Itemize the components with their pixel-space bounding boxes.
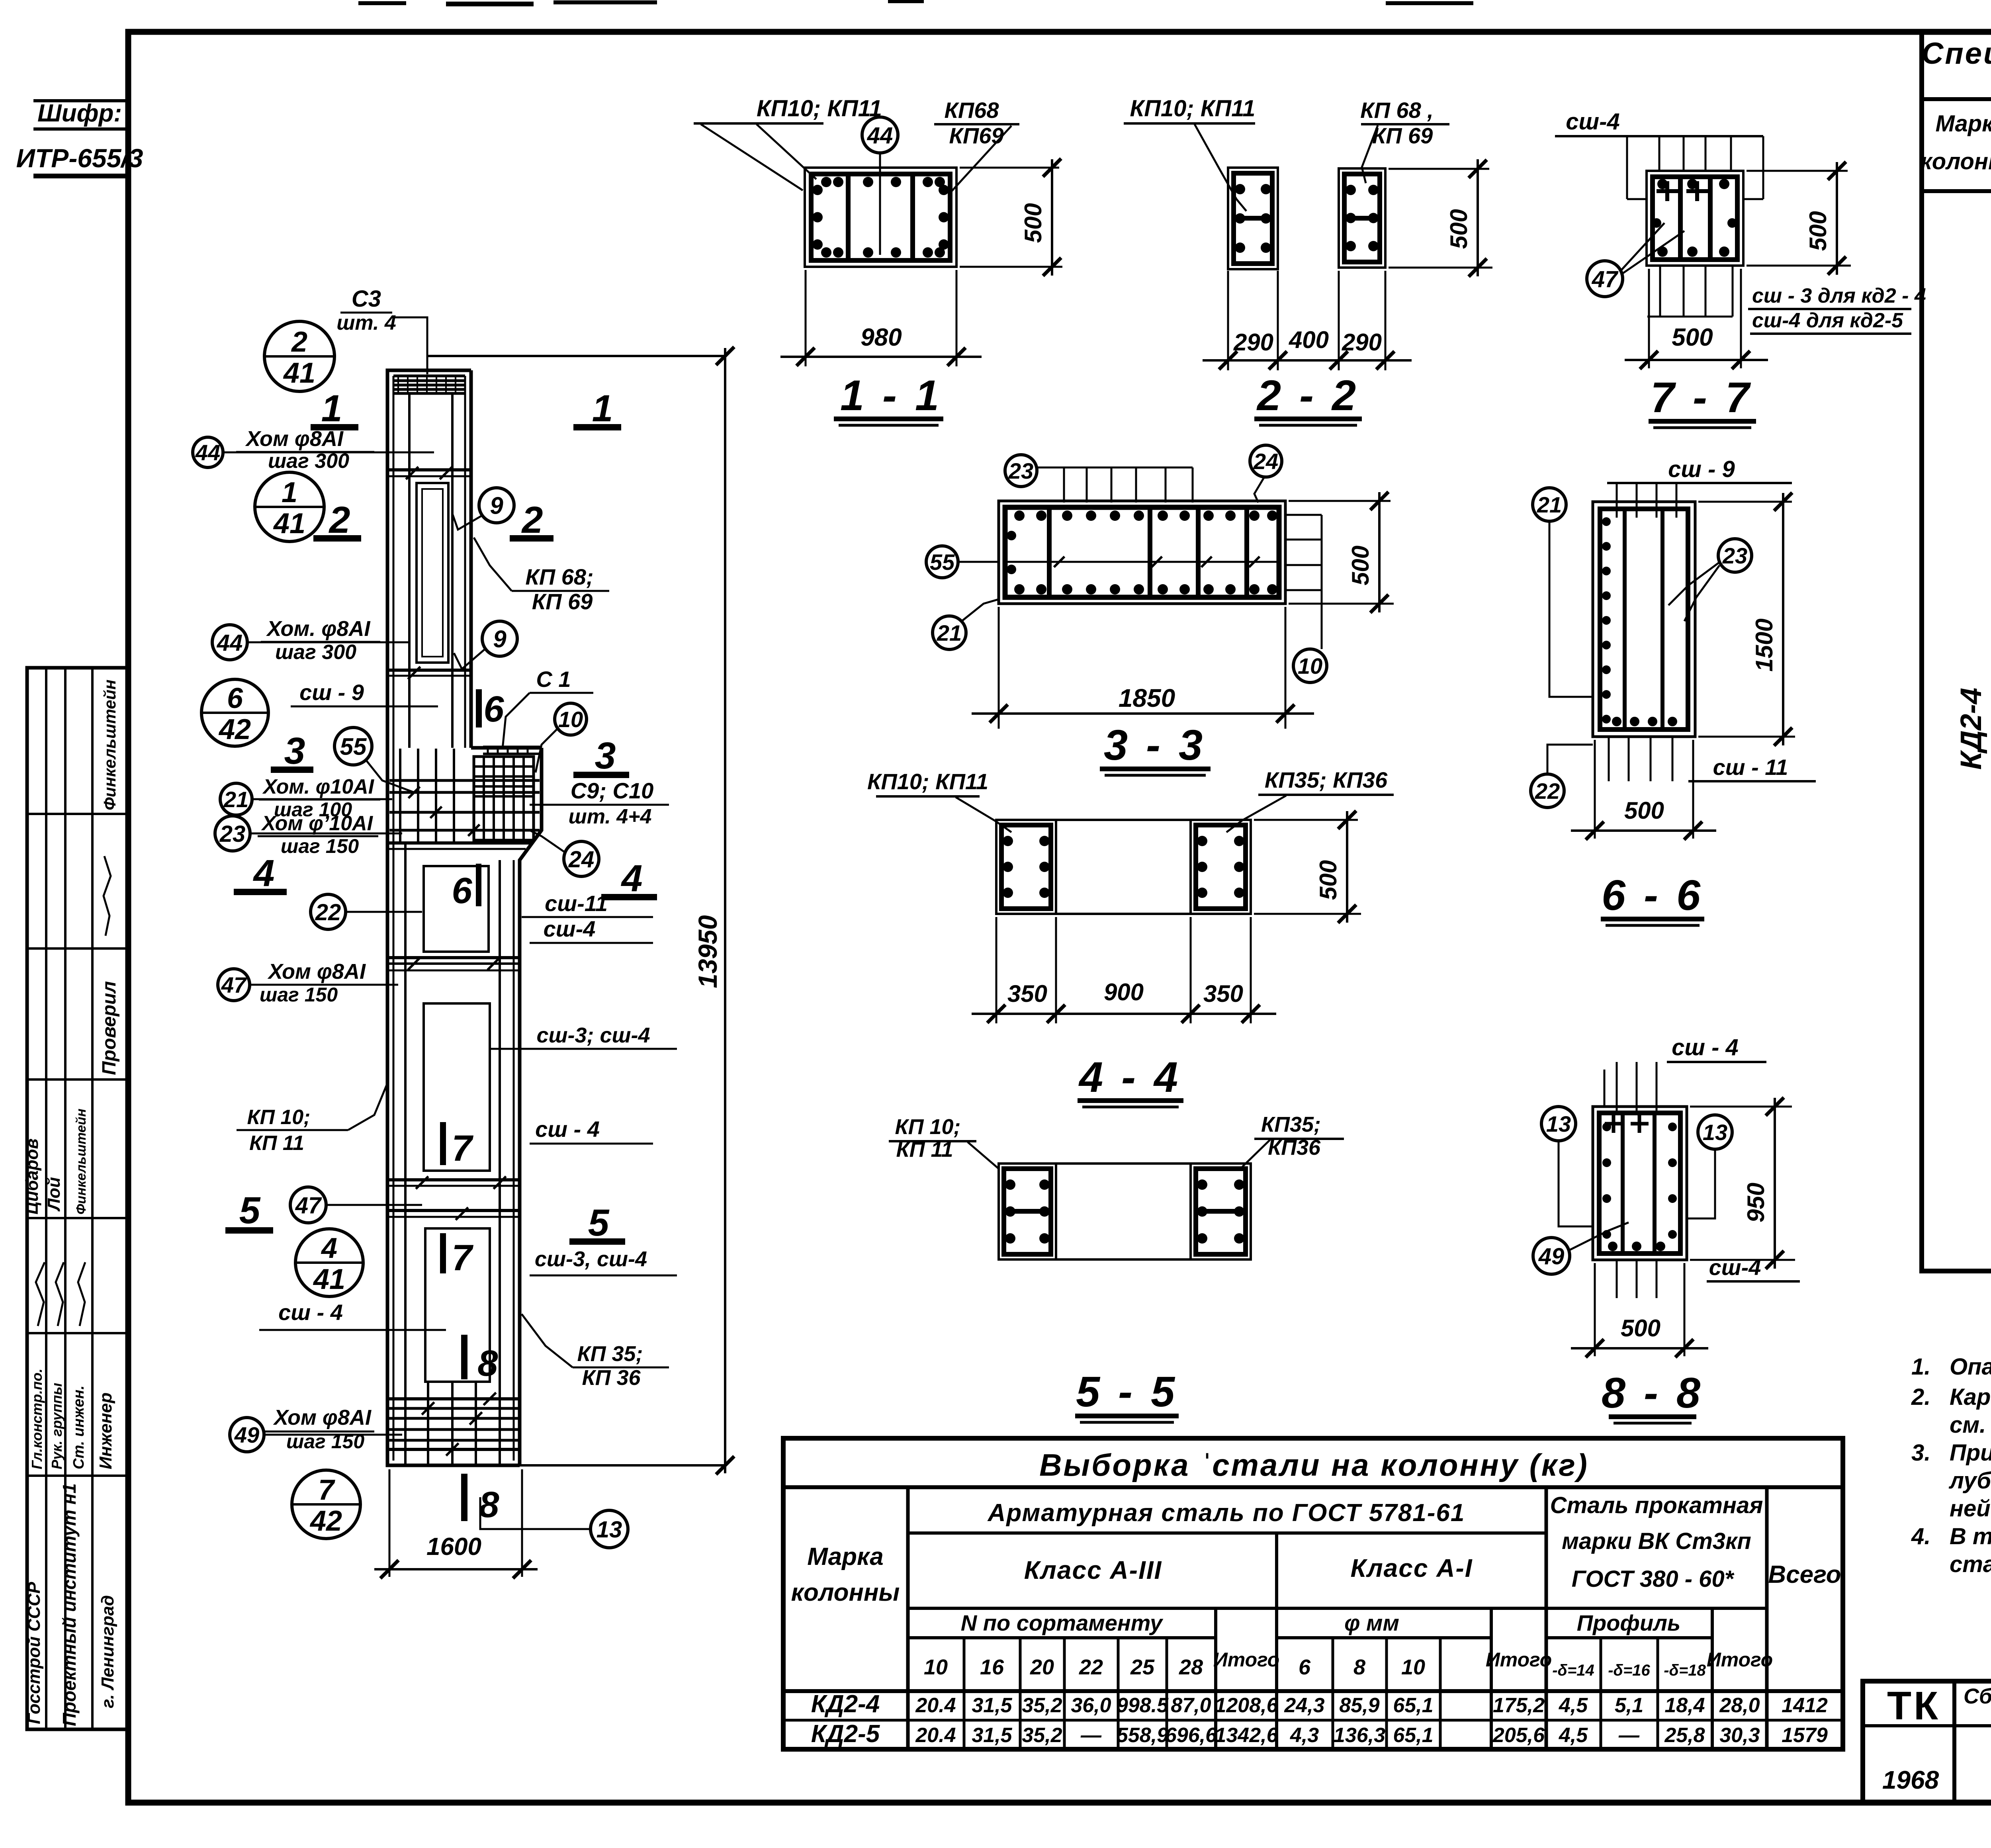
svg-text:сш-4: сш-4 (544, 916, 596, 941)
svg-text:400: 400 (1289, 327, 1329, 353)
svg-text:В таблице расхода материа: В таблице расхода материалов не учтен ра… (1950, 1523, 1991, 1549)
svg-text:1208,6: 1208,6 (1215, 1694, 1278, 1717)
svg-text:лубку колонн маркированные к: лубку колонн маркированные краской концы… (1948, 1468, 1991, 1494)
leader 9 upper (452, 514, 482, 530)
svg-text:ИТР-655/3: ИТР-655/3 (16, 143, 143, 173)
section 8-8 callout 13 right (1698, 1115, 1732, 1149)
section 7-7 leader 47 (1621, 223, 1664, 271)
svg-text:КП 10;: КП 10; (247, 1106, 311, 1129)
svg-text:Сборные железобетонные двухвет: Сборные железобетонные двухветвевые коло… (1964, 1684, 1991, 1708)
section 8-8 bracket 13 right (1687, 1150, 1715, 1218)
svg-text:При установке пространственн: При установке пространственных каркасов … (1950, 1440, 1991, 1466)
leader 9 lower (454, 649, 485, 669)
svg-text:Итого: Итого (1486, 1649, 1552, 1671)
leader 47 lower (326, 1204, 422, 1206)
svg-text:—: — (1080, 1724, 1102, 1747)
svg-text:КД2-4: КД2-4 (1954, 688, 1987, 770)
section 3-3 callout 55 (926, 546, 958, 578)
section 4-4 dim 500 extensions (1254, 819, 1358, 821)
svg-text:25: 25 (1130, 1655, 1155, 1679)
svg-text:С 1: С 1 (536, 667, 571, 692)
section 2-2 leader KP68 (1362, 125, 1378, 183)
svg-text:Ст. инжен.: Ст. инжен. (70, 1385, 87, 1469)
column elevation outline (387, 370, 520, 1465)
section 8-8 bottom bracket (1616, 1260, 1618, 1298)
section 3-3 body outer (999, 501, 1285, 604)
section 8-8 dim 500 extensions (1594, 1263, 1596, 1356)
svg-text:980: 980 (861, 324, 902, 351)
svg-text:сш - 4: сш - 4 (535, 1117, 600, 1142)
svg-text:205,6: 205,6 (1492, 1724, 1545, 1747)
leader 13 (480, 1497, 591, 1529)
svg-text:-δ=14: -δ=14 (1552, 1662, 1594, 1679)
leader KP68 (474, 538, 512, 591)
svg-text:6: 6 (452, 870, 472, 911)
svg-text:42: 42 (218, 714, 251, 745)
section 3-3 callout 21 (933, 616, 966, 649)
svg-text:сш-11: сш-11 (545, 891, 608, 916)
svg-text:8: 8 (1353, 1655, 1365, 1679)
leader 44 lower (247, 641, 409, 643)
corbel stirrup cage (474, 757, 534, 840)
cipher box top-left (33, 99, 128, 102)
section 4-4 leader KP35 (1226, 796, 1286, 832)
title block outer (1863, 1681, 1991, 1803)
steel table horizontal lines (908, 1531, 1546, 1535)
svg-text:КП 10;: КП 10; (895, 1115, 960, 1139)
sidebar table grid (27, 668, 127, 1729)
svg-text:3 - 3: 3 - 3 (1104, 721, 1206, 769)
svg-text:КП36: КП36 (1268, 1136, 1321, 1160)
svg-text:Рук. группы: Рук. группы (49, 1383, 65, 1469)
svg-text:136,3: 136,3 (1334, 1724, 1385, 1747)
svg-text:колонны: колонны (1920, 149, 1991, 174)
svg-text:Госстрой СССР: Госстрой СССР (24, 1582, 44, 1724)
svg-text:49: 49 (1538, 1244, 1565, 1269)
svg-text:КП68: КП68 (945, 98, 999, 123)
svg-text:КП10; КП11: КП10; КП11 (1130, 96, 1256, 121)
svg-text:47: 47 (1592, 266, 1619, 292)
leader S1 (503, 693, 530, 749)
svg-text:23: 23 (219, 821, 246, 847)
svg-text:7: 7 (452, 1128, 473, 1169)
section 8-8 top bracket (1616, 1062, 1618, 1111)
section 2-2 right branch (1339, 168, 1385, 268)
svg-text:1968: 1968 (1882, 1766, 1939, 1794)
svg-text:КП10; КП11: КП10; КП11 (757, 96, 882, 121)
svg-text:8: 8 (479, 1484, 499, 1525)
section 7-7 callout 47 (1587, 261, 1623, 297)
svg-text:21: 21 (1537, 492, 1562, 517)
svg-text:6: 6 (483, 689, 504, 729)
svg-text:500: 500 (1672, 324, 1713, 351)
svg-text:6: 6 (227, 682, 243, 714)
svg-text:13950: 13950 (693, 915, 722, 988)
svg-text:500: 500 (1445, 209, 1472, 249)
leader SSh-3 SSh-4 (490, 1048, 530, 1050)
svg-text:998.5: 998.5 (1117, 1694, 1169, 1717)
section 6-6 dim 1500 line (1782, 493, 1784, 745)
callout circle 6/42 (201, 679, 268, 746)
svg-text:Финкельштейн: Финкельштейн (74, 1109, 89, 1214)
svg-text:2: 2 (291, 326, 307, 358)
callout circle 55 (334, 727, 372, 765)
svg-text:шаг 300: шаг 300 (275, 641, 356, 664)
svg-text:Опалубку колонн см. в вы: Опалубку колонн см. в выпуске I л 35 (1950, 1354, 1991, 1380)
svg-text:1850: 1850 (1119, 684, 1175, 712)
svg-text:41: 41 (283, 357, 315, 389)
svg-text:23: 23 (1722, 543, 1747, 568)
svg-text:ТК: ТК (1887, 1684, 1940, 1728)
svg-text:сш-4 для кд2-5: сш-4 для кд2-5 (1752, 309, 1903, 332)
svg-text:350: 350 (1007, 980, 1047, 1007)
section 1-1 dim 980 line (780, 356, 982, 358)
section 6-6 callout 23 (1718, 539, 1752, 572)
svg-text:3: 3 (284, 730, 305, 772)
svg-text:Проектный институт н1: Проектный институт н1 (59, 1483, 80, 1726)
section 6-6 rebar verticals (1623, 509, 1627, 729)
callout circle 44 upper (193, 437, 223, 467)
section 7-7 body (1647, 171, 1743, 266)
svg-text:Проверил: Проверил (99, 981, 120, 1075)
section bar 7 upper (441, 1123, 445, 1164)
svg-text:-δ=18: -δ=18 (1664, 1662, 1706, 1679)
section 2-2 leader KP10 (1195, 124, 1246, 211)
svg-text:Итого: Итого (1213, 1649, 1279, 1671)
svg-text:1579: 1579 (1782, 1724, 1828, 1747)
svg-text:9: 9 (490, 493, 503, 519)
section 1-1 leader KP10 (701, 124, 803, 190)
svg-text:марки ВК Ст3кп: марки ВК Ст3кп (1562, 1528, 1751, 1554)
sidebar signature squiggle 1 (104, 856, 111, 936)
section 7-7 top bracket (1626, 136, 1628, 199)
section 1-1 dim 500 line (1051, 159, 1053, 276)
section 3-3 hook ticks (1054, 557, 1064, 567)
svg-text:44: 44 (867, 123, 893, 149)
leader S3 (392, 317, 427, 374)
callout circle 9 upper (479, 488, 514, 523)
section 3-3 dim 1850 extensions (998, 607, 1000, 729)
svg-text:5,1: 5,1 (1615, 1694, 1643, 1717)
svg-text:4: 4 (321, 1232, 337, 1264)
svg-text:10: 10 (1298, 653, 1322, 679)
section 1-1 dim 980 extensions (805, 270, 807, 366)
callout circle 49 (230, 1418, 264, 1452)
svg-text:1342,6: 1342,6 (1215, 1724, 1278, 1747)
section 4-4 leader KP10 (956, 797, 1011, 832)
callout circle 21 (220, 783, 252, 815)
callout circle 24 column (564, 841, 599, 876)
svg-text:7: 7 (452, 1238, 473, 1278)
column top rebar verticals (408, 394, 411, 748)
section 3-3 rebar dots left (1007, 531, 1016, 540)
svg-text:20: 20 (1030, 1655, 1054, 1679)
joint band y1180 (387, 468, 471, 471)
section 6-6 bottom dots (1612, 717, 1621, 726)
svg-text:2: 2 (329, 499, 350, 541)
svg-text:47: 47 (295, 1193, 322, 1218)
callout circle 23 (215, 816, 250, 851)
scan artifact dashes top edge (358, 1, 406, 5)
section 6-6 body inner cage (1600, 509, 1688, 729)
svg-text:24: 24 (568, 847, 595, 872)
section 6-6 callout 22 (1531, 774, 1564, 808)
leader 24 column (530, 830, 565, 852)
svg-text:КП35; КП36: КП35; КП36 (1265, 767, 1388, 792)
svg-text:Итого: Итого (1707, 1649, 1773, 1671)
callout circle 2/41 (264, 321, 334, 391)
svg-text:сш - 9: сш - 9 (1668, 456, 1735, 482)
section bar 6 upper (477, 690, 481, 727)
section 6-6 callout 21 (1533, 488, 1566, 521)
section 3-3 mid stirrup line (1005, 561, 1279, 563)
svg-text:500: 500 (1347, 546, 1374, 585)
window opening 2 (424, 866, 489, 952)
section 3-3 callout 10 (1293, 649, 1327, 682)
svg-text:36,0: 36,0 (1071, 1694, 1111, 1717)
svg-text:696,6: 696,6 (1165, 1724, 1217, 1747)
svg-text:65,1: 65,1 (1393, 1694, 1433, 1717)
section 3-3 compartment dividers (1047, 510, 1052, 595)
svg-text:сш - 9: сш - 9 (299, 680, 364, 705)
section 8-8 callout 13 left (1541, 1107, 1576, 1141)
callout circle 4/41 (295, 1229, 363, 1297)
svg-text:колонны: колонны (791, 1579, 900, 1606)
leader KP35 (522, 1314, 573, 1367)
svg-text:1.: 1. (1911, 1354, 1930, 1380)
svg-text:25,8: 25,8 (1664, 1724, 1705, 1747)
column inner formwork lines (393, 376, 395, 1461)
section 1-1 body (805, 168, 956, 267)
window opening 1 (KP frame) (417, 483, 448, 663)
section 3-3 callout 24 (1250, 445, 1282, 477)
svg-text:сш - 11: сш - 11 (1713, 755, 1788, 780)
svg-text:Спецификация арматурных изде: Спецификация арматурных изделий (1921, 37, 1991, 70)
svg-text:1 - 1: 1 - 1 (840, 371, 942, 419)
svg-text:сш-3, сш-4: сш-3, сш-4 (535, 1247, 647, 1271)
svg-text:41: 41 (273, 508, 305, 540)
svg-text:3.: 3. (1911, 1440, 1930, 1466)
callout circle 9 lower (482, 621, 517, 656)
svg-text:5: 5 (239, 1189, 261, 1232)
section 5-5 leader KP10 (968, 1142, 999, 1169)
svg-text:г. Ленинград: г. Ленинград (98, 1595, 117, 1708)
svg-text:87,0: 87,0 (1171, 1694, 1211, 1717)
leader 22 (346, 911, 422, 913)
section 1-1 leader KP68 (952, 126, 1011, 191)
svg-text:20.4: 20.4 (915, 1724, 956, 1747)
svg-text:35,2: 35,2 (1022, 1694, 1062, 1717)
svg-text:стали на закладные элемент: стали на закладные элементы. (1950, 1551, 1991, 1577)
svg-text:290: 290 (1342, 329, 1382, 356)
svg-text:10: 10 (558, 707, 583, 732)
svg-text:8: 8 (477, 1343, 498, 1384)
leader KP10 left (348, 1083, 387, 1130)
section 8-8 dim 950 line (1774, 1098, 1776, 1269)
svg-text:сш-3; сш-4: сш-3; сш-4 (536, 1023, 650, 1047)
dim 1600 line (374, 1568, 538, 1570)
svg-text:65,1: 65,1 (1393, 1724, 1433, 1747)
column top cap hatch (393, 375, 465, 377)
svg-text:22: 22 (315, 900, 341, 925)
section 7-7 dim 500 right extensions (1747, 170, 1848, 172)
section 4-4 dim line 350 900 350 (972, 1013, 1276, 1015)
svg-text:Финкельштейн: Финкельштейн (100, 679, 119, 810)
svg-text:31,5: 31,5 (972, 1694, 1012, 1717)
section 3-3 leader 24 (1254, 477, 1264, 503)
sidebar signature squiggles 2 (36, 1262, 45, 1326)
svg-text:КП 69: КП 69 (1372, 123, 1433, 148)
svg-text:500: 500 (1020, 203, 1046, 243)
svg-text:сш-4: сш-4 (1566, 109, 1619, 135)
svg-text:КП 11: КП 11 (896, 1138, 953, 1162)
section 5-5 leader KP35 (1242, 1140, 1270, 1167)
svg-text:2.: 2. (1911, 1384, 1930, 1410)
svg-text:Сталь прокатная: Сталь прокатная (1550, 1492, 1763, 1518)
svg-text:ней должны быть обращены к: ней должны быть обращены к низу колонн (1950, 1496, 1991, 1521)
svg-text:18,4: 18,4 (1664, 1694, 1705, 1717)
svg-text:КП 68 ,: КП 68 , (1360, 98, 1434, 123)
svg-text:1412: 1412 (1782, 1694, 1828, 1717)
leader S9S10 (530, 804, 565, 806)
svg-text:Класс А-III: Класс А-III (1024, 1556, 1162, 1584)
svg-text:500: 500 (1621, 1315, 1660, 1342)
svg-text:Хом φ8АI: Хом φ8АI (267, 960, 366, 984)
svg-text:21: 21 (223, 787, 248, 812)
callout circle 1/41 (255, 472, 324, 542)
section 3-3 dim 500 extensions (1289, 500, 1391, 502)
svg-text:1: 1 (592, 387, 613, 430)
svg-text:3: 3 (595, 735, 616, 777)
section 3-3 leader 23 with drops (1037, 467, 1193, 469)
svg-text:9: 9 (493, 626, 507, 653)
svg-text:13: 13 (1703, 1120, 1727, 1145)
svg-text:950: 950 (1743, 1183, 1769, 1222)
svg-text:20.4: 20.4 (915, 1694, 956, 1717)
section 4-4 right branch (1191, 820, 1251, 914)
spec table title line (1922, 97, 1991, 101)
svg-text:Хом. φ8АI: Хом. φ8АI (266, 617, 371, 641)
svg-text:22: 22 (1535, 778, 1560, 804)
leader 10 column (536, 729, 557, 772)
section 6-6 body outer (1593, 502, 1695, 737)
band pair y2970-3050 (387, 1178, 520, 1181)
svg-text:С9; С10: С9; С10 (571, 778, 654, 803)
svg-text:сш - 4: сш - 4 (278, 1300, 343, 1325)
svg-text:Цибаров: Цибаров (22, 1138, 42, 1214)
section 3-3 dim 500 line (1378, 492, 1381, 612)
svg-text:Хом φ8АI: Хом φ8АI (273, 1406, 372, 1430)
corbel top plate (483, 746, 542, 749)
svg-text:шт. 4+4: шт. 4+4 (569, 805, 652, 828)
leader SSh-11 (522, 916, 540, 918)
section 4-4 dim 500 line (1346, 811, 1348, 923)
svg-text:42: 42 (309, 1505, 342, 1537)
svg-text:23: 23 (1008, 458, 1033, 483)
leader 47 upper (250, 984, 398, 986)
svg-text:900: 900 (1104, 979, 1144, 1005)
section 8-8 bracket 13 left (1559, 1141, 1593, 1226)
section bar 8 upper (462, 1336, 467, 1379)
section 3-3 body inner cage (1005, 507, 1279, 597)
svg-text:13: 13 (597, 1517, 622, 1543)
svg-text:Марка: Марка (1935, 111, 1991, 137)
steel table title bottom line (783, 1485, 1843, 1489)
svg-text:6 - 6: 6 - 6 (1602, 871, 1703, 919)
svg-text:21: 21 (937, 620, 962, 645)
svg-text:500: 500 (1315, 860, 1342, 900)
passage band y2420 (387, 956, 520, 959)
section 2-2 dim line 290 400 290 (1203, 359, 1412, 362)
svg-text:175,2: 175,2 (1493, 1694, 1545, 1717)
section 8-8 rebar verticals (1621, 1113, 1625, 1254)
svg-text:28: 28 (1179, 1655, 1203, 1679)
svg-text:13: 13 (1546, 1111, 1571, 1136)
section 1-1 callout 44 (862, 117, 898, 153)
section 2-2 dim 500 extensions (1389, 168, 1489, 170)
section 2-2 left branch (1228, 168, 1278, 269)
svg-text:Класс А-I: Класс А-I (1350, 1554, 1473, 1582)
section 8-8 callout 49 (1533, 1238, 1570, 1274)
svg-text:Профиль: Профиль (1577, 1610, 1681, 1635)
section 2-2 dims below extensions (1227, 271, 1229, 370)
section 5-5 left branch (999, 1164, 1056, 1259)
dim 13950 line (427, 355, 725, 357)
section 6-6 leader 23 (1668, 562, 1719, 605)
leader 55 (366, 761, 414, 792)
svg-text:4 - 4: 4 - 4 (1078, 1053, 1181, 1101)
svg-text:22: 22 (1079, 1655, 1103, 1679)
svg-text:290: 290 (1233, 329, 1273, 356)
svg-text:1: 1 (321, 387, 342, 430)
corbel bottom band (387, 841, 532, 845)
section 6-6 dim 500 extensions (1594, 740, 1596, 839)
svg-text:4,5: 4,5 (1559, 1694, 1588, 1717)
svg-text:Выборка ˈстали на колонну: Выборка ˈстали на колонну (кг) (1039, 1447, 1589, 1482)
svg-text:С3: С3 (352, 286, 381, 312)
section bar 8 lower (462, 1474, 467, 1520)
joint band y1685 (387, 669, 471, 672)
section 7-7 dim 500 right line (1836, 162, 1838, 275)
svg-text:сш - 4: сш - 4 (1672, 1034, 1739, 1060)
section 7-7 dim 500 bottom extensions (1648, 269, 1650, 368)
svg-text:Арматурная сталь по ГОСТ: Арматурная сталь по ГОСТ 5781-61 (987, 1499, 1465, 1527)
svg-text:41: 41 (313, 1263, 345, 1295)
svg-text:500: 500 (1805, 211, 1831, 251)
section 1-1 dim 500 extensions (960, 167, 1059, 169)
callout circle 22 (311, 894, 346, 929)
svg-text:85,9: 85,9 (1339, 1694, 1379, 1717)
spec table outer border (1922, 32, 1991, 1271)
section 8-8 dim 950 extensions (1690, 1106, 1792, 1108)
svg-text:КД2-5: КД2-5 (811, 1720, 880, 1748)
lower shaft rebar verticals (404, 843, 407, 1461)
svg-text:44: 44 (195, 440, 220, 465)
section 6-6 bottom drop lines (1608, 737, 1610, 781)
section 4-4 top chord (996, 819, 1251, 821)
svg-text:10: 10 (1401, 1655, 1425, 1679)
svg-text:47: 47 (221, 972, 247, 997)
window opening 4 (425, 1228, 490, 1382)
svg-text:8 - 8: 8 - 8 (1602, 1369, 1703, 1417)
section 8-8 body inner cage (1599, 1113, 1680, 1254)
section 8-8 dim 500 line (1571, 1347, 1708, 1349)
svg-text:1600: 1600 (426, 1533, 481, 1561)
section 1-1 leader 44 (879, 153, 881, 255)
svg-text:30,3: 30,3 (1719, 1724, 1760, 1747)
callout circle 10 column (555, 703, 587, 735)
callout circle 47 upper (218, 969, 250, 1001)
